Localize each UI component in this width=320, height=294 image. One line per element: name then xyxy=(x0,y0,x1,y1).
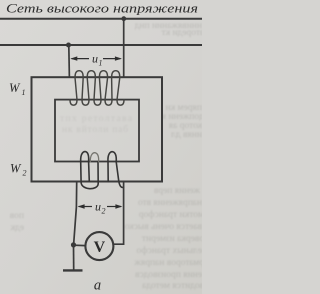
turn B top arc xyxy=(108,152,116,162)
faint middle turn arc xyxy=(90,153,98,162)
bottom arcs xyxy=(70,100,77,105)
svg-text:V: V xyxy=(94,239,106,256)
svg-text:1: 1 xyxy=(99,59,103,68)
svg-text:атореди кт: атореди кт xyxy=(161,28,202,38)
svg-text:а: а xyxy=(94,278,101,294)
svg-text:пов: пов xyxy=(9,211,24,221)
svg-text:вается очень выско: вается очень выско xyxy=(124,222,202,232)
loop sides crossing the bar xyxy=(75,77,77,99)
paper background xyxy=(0,0,202,294)
svg-text:Сеть высокого напряжения: Сеть высокого напряжения xyxy=(6,1,198,16)
svg-text:2: 2 xyxy=(23,169,27,178)
svg-text:рматоров напряж: рматоров напряж xyxy=(134,258,202,268)
svg-text:u: u xyxy=(92,52,98,66)
turn A right side xyxy=(88,162,91,182)
wire from line 1 down to primary (right lead) xyxy=(123,19,125,78)
ground xyxy=(63,269,83,271)
u2 dimension arrow xyxy=(78,204,123,208)
primary winding W1 (4 top loops + 5 bottom arcs across top bar) xyxy=(70,71,124,106)
junction dot on line 2 xyxy=(66,43,71,48)
ghost show-through text (faint) xyxy=(9,21,204,291)
svg-text:1: 1 xyxy=(22,88,26,97)
svg-text:оверка измерит: оверка измерит xyxy=(141,234,202,244)
svg-text:едк: едк xyxy=(10,223,24,233)
turn B right diagonal to right lead xyxy=(116,162,123,188)
bus line 2 (lower supply line) xyxy=(0,44,202,46)
voltmeter V xyxy=(85,232,113,260)
wire from junction down to ground xyxy=(73,245,75,270)
turn B left side xyxy=(107,162,109,182)
svg-text:2: 2 xyxy=(102,207,106,216)
wire from line 2 down to primary (left lead) xyxy=(68,45,71,78)
bus line 1 (upper supply line) xyxy=(0,18,202,20)
svg-text:жения перв: жения перв xyxy=(153,186,201,196)
svg-text:иняв дл: иняв дл xyxy=(171,130,202,140)
svg-text:W: W xyxy=(10,162,22,176)
svg-text:напряжения вто: напряжения вто xyxy=(138,198,202,208)
secondary left lead wire xyxy=(74,182,77,245)
svg-text:ения производсв: ения производсв xyxy=(135,270,202,280)
svg-text:W: W xyxy=(9,81,21,95)
svg-text:водится метода: водится метода xyxy=(141,281,202,291)
turn A left side + under-bar arc xyxy=(81,162,99,189)
secondary right lead wire xyxy=(114,182,124,245)
turn A top arc xyxy=(81,152,89,162)
svg-text:нк вйтоли паб: нк вйтоли паб xyxy=(62,124,128,135)
transformer core outer rectangle xyxy=(32,77,163,181)
junction dot at voltmeter tap xyxy=(71,242,76,247)
u1 dimension arrow xyxy=(70,56,122,60)
svg-text:ельных трансфо: ельных трансфо xyxy=(136,245,202,256)
wire from junction to voltmeter xyxy=(74,244,86,246)
junction dot on line 1 xyxy=(121,16,126,21)
top arcs xyxy=(75,71,83,78)
svg-text:мотки трансфор: мотки трансфор xyxy=(139,209,202,220)
transformer core inner rectangle (window) xyxy=(55,100,139,162)
secondary winding W2 (2 loops across bottom bar) xyxy=(81,152,124,189)
svg-text:u: u xyxy=(95,200,101,214)
